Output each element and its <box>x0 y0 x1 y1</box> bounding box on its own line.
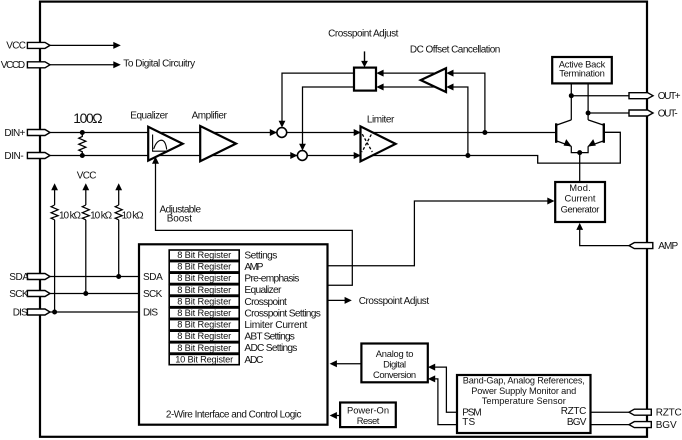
wire adjustable boost from equalizer register <box>152 157 352 286</box>
wire ABT to OUT- collector branch <box>587 83 589 120</box>
svg-text:8 Bit Register: 8 Bit Register <box>177 296 231 306</box>
mod current generator box <box>555 182 605 222</box>
svg-text:10 kΩ: 10 kΩ <box>122 210 145 221</box>
wire OUT+ <box>571 95 630 97</box>
svg-text:VCCD: VCCD <box>1 60 25 71</box>
op-amp U3 DC offset cancellation <box>421 68 446 92</box>
wire DC offset out 2 into crosspoint box <box>376 84 436 91</box>
label To Digital Circuitry <box>123 59 195 70</box>
power-on reset box <box>340 403 396 428</box>
svg-text:Equalizer: Equalizer <box>244 285 282 296</box>
label 2-wire box SDA <box>143 272 163 283</box>
svg-text:AMP: AMP <box>244 262 263 273</box>
svg-text:Boost: Boost <box>167 213 193 224</box>
label mod current generator text <box>561 182 600 215</box>
wire DIN+ net <box>50 132 556 134</box>
svg-text:Mod.: Mod. <box>569 182 590 193</box>
wire DC offset in 1 from DIN+ node <box>446 70 485 133</box>
svg-text:TS: TS <box>462 417 475 428</box>
pin label VCCD <box>1 60 25 71</box>
wire emitter tail <box>571 146 588 182</box>
register 8-bit Settings <box>169 250 239 260</box>
equalizer U1 <box>148 127 183 161</box>
register 8-bit ADC Settings <box>169 343 239 353</box>
wire ABT to OUT+ collector branch <box>570 83 572 120</box>
register 10-bit ADC <box>169 354 239 364</box>
svg-text:8 Bit Register: 8 Bit Register <box>177 320 231 330</box>
register 8-bit Equalizer <box>169 285 239 295</box>
pin label DIS <box>13 308 28 319</box>
pin DIS <box>27 309 50 315</box>
wire TS to ADC <box>428 375 457 424</box>
transistor Q1 <box>556 120 571 146</box>
svg-text:SDA: SDA <box>143 272 163 283</box>
pin RZTC <box>629 409 651 415</box>
svg-text:Power Supply Monitor and: Power Supply Monitor and <box>471 386 576 396</box>
wire crosspoint output 1 to switch S1 <box>279 73 354 128</box>
svg-text:8 Bit Register: 8 Bit Register <box>177 308 231 318</box>
label Limiter <box>367 115 395 126</box>
svg-text:ADC Settings: ADC Settings <box>244 343 297 354</box>
resistor R term 100 ohm <box>79 133 86 156</box>
svg-text:OUT+: OUT+ <box>658 91 681 102</box>
pin label RZTC <box>656 408 682 419</box>
register texts <box>175 250 233 364</box>
wire VCC internal <box>50 42 121 49</box>
svg-text:SDA: SDA <box>9 272 29 283</box>
label VCC pullup rail <box>77 170 97 181</box>
pin label VCC <box>6 41 26 52</box>
svg-text:Equalizer: Equalizer <box>130 110 168 121</box>
svg-text:RZTC: RZTC <box>561 406 587 417</box>
svg-text:OUT-: OUT- <box>658 108 678 119</box>
register 8-bit ABT Settings <box>169 331 239 341</box>
wire DC offset out 1 into crosspoint box <box>376 70 436 77</box>
node OUT- junction <box>586 111 591 116</box>
wire SCK <box>50 293 140 295</box>
label ADC box text <box>373 348 416 380</box>
svg-text:Conversion: Conversion <box>373 369 416 380</box>
svg-text:Reset: Reset <box>357 415 380 426</box>
register 8-bit Crosspoint <box>169 296 239 306</box>
node SCK pullup junction <box>83 291 88 296</box>
label RZTC internal <box>561 406 587 417</box>
svg-text:AMP: AMP <box>658 241 678 252</box>
label PSM <box>462 407 482 418</box>
svg-text:Crosspoint Settings: Crosspoint Settings <box>244 308 321 319</box>
label Crosspoint Adjust top <box>328 29 399 40</box>
svg-text:SCK: SCK <box>9 289 29 300</box>
pin label SCK <box>9 289 29 300</box>
node DIN+ / resistor junction <box>80 130 85 135</box>
value label 10 kOhm R2 <box>59 210 82 221</box>
label Equalizer <box>130 110 168 121</box>
amplifier U2 <box>200 126 236 161</box>
svg-text:Amplifier: Amplifier <box>192 111 228 122</box>
register 8-bit AMP <box>169 262 239 272</box>
svg-text:Power-On: Power-On <box>347 404 389 415</box>
svg-text:Crosspoint Adjust: Crosspoint Adjust <box>328 29 399 40</box>
svg-text:RZTC: RZTC <box>656 408 682 419</box>
register 8-bit Pre-emphasis <box>169 273 239 283</box>
pin SDA <box>27 274 50 280</box>
pin VCC <box>27 42 50 48</box>
crosspoint adjust box <box>354 68 376 91</box>
wire pullup SDA 10k to VCC <box>115 183 122 276</box>
node SDA pullup junction <box>116 274 121 279</box>
svg-text:ABT Settings: ABT Settings <box>244 332 295 343</box>
svg-text:Pre-emphasis: Pre-emphasis <box>244 274 299 285</box>
pin VCCD <box>27 62 50 68</box>
svg-text:DIN+: DIN+ <box>4 128 25 139</box>
value label 100 ohm <box>73 111 102 126</box>
svg-text:10 kΩ: 10 kΩ <box>90 210 113 221</box>
node DIN+ feedback junction <box>482 130 487 135</box>
wire VCCD to digital circuitry <box>50 61 121 68</box>
wire SDA <box>50 276 140 278</box>
band-gap analog references box <box>457 375 591 433</box>
svg-text:2-Wire Interface and Control L: 2-Wire Interface and Control Logic <box>166 410 302 421</box>
value label 10 kOhm R3 <box>90 210 113 221</box>
pin OUT+ <box>629 93 653 99</box>
node DIN- / resistor junction <box>80 153 85 158</box>
label ABT box text <box>559 59 606 79</box>
pin label SDA <box>9 272 29 283</box>
pin label BGV <box>656 420 677 431</box>
label 2-wire box SCK <box>143 289 163 300</box>
svg-text:Limiter: Limiter <box>367 115 395 126</box>
pin OUT- <box>629 110 653 116</box>
label Amplifier <box>192 111 228 122</box>
svg-text:8 Bit Register: 8 Bit Register <box>177 250 231 260</box>
node DIS pullup junction <box>52 310 57 315</box>
active back termination box <box>552 57 612 83</box>
svg-text:8 Bit Register: 8 Bit Register <box>177 331 231 341</box>
register 8-bit Crosspoint Settings <box>169 308 239 318</box>
node DIN- feedback junction <box>465 153 470 158</box>
node emitter junction <box>577 150 582 155</box>
wire pullup DIS 10k to VCC <box>51 183 58 312</box>
wire BGV <box>591 424 631 426</box>
svg-text:BGV: BGV <box>656 420 677 431</box>
pin DIN+ <box>27 130 50 136</box>
svg-text:8 Bit Register: 8 Bit Register <box>177 285 231 295</box>
limiter U4 <box>354 126 396 161</box>
wire DIN- net <box>50 132 621 163</box>
wire ADC result to control logic <box>330 360 362 367</box>
wire PSM to ADC <box>428 364 457 413</box>
svg-text:Settings: Settings <box>244 250 277 261</box>
svg-text:Crosspoint Adjust: Crosspoint Adjust <box>359 296 430 307</box>
svg-text:Crosspoint: Crosspoint <box>244 297 287 308</box>
wire pullup SCK 10k to VCC <box>82 183 89 293</box>
svg-text:Limiter Current: Limiter Current <box>244 320 307 331</box>
wire AMP pin to mod current generator <box>576 223 630 246</box>
transistor Q2 <box>588 120 604 146</box>
pin label DIN- <box>4 151 23 162</box>
wire crosspoint output 2 to switch S2 <box>299 87 354 151</box>
svg-text:DIN-: DIN- <box>4 151 23 162</box>
pin BGV <box>629 422 651 428</box>
pin label DIN+ <box>4 128 25 139</box>
pin label OUT- <box>658 108 678 119</box>
register 8-bit Limiter Current <box>169 320 239 330</box>
svg-text:Digital: Digital <box>383 358 406 369</box>
pin AMP <box>629 243 653 249</box>
label BGV internal <box>567 417 587 428</box>
register row labels <box>244 250 321 365</box>
svg-text:To Digital Circuitry: To Digital Circuitry <box>123 59 195 70</box>
node OUT+ junction <box>569 93 574 98</box>
value label 10 kOhm R4 <box>122 210 145 221</box>
svg-text:BGV: BGV <box>567 417 587 428</box>
pin label AMP <box>658 241 678 252</box>
wire AMP control from register <box>329 198 555 266</box>
label TS <box>462 417 475 428</box>
label DC Offset Cancellation <box>410 45 500 56</box>
svg-text:VCC: VCC <box>77 170 97 181</box>
label 2-wire box DIS <box>143 308 158 319</box>
svg-text:Temperature Sensor: Temperature Sensor <box>482 396 566 406</box>
wire OUT- <box>588 112 630 114</box>
pin SCK <box>27 291 50 297</box>
label Crosspoint Adjust lower <box>359 296 430 307</box>
label Adjustable Boost <box>160 204 202 224</box>
svg-text:Current: Current <box>565 193 596 204</box>
wire DC offset in 2 from DIN- node <box>446 84 468 156</box>
svg-text:DIS: DIS <box>13 308 28 319</box>
svg-text:8 Bit Register: 8 Bit Register <box>177 262 231 272</box>
svg-text:Termination: Termination <box>559 67 605 78</box>
wire power-on reset to control logic <box>330 412 341 419</box>
svg-text:Analog to: Analog to <box>376 348 414 359</box>
analog to digital conversion box <box>361 344 427 383</box>
wire crosspoint adjust control dash <box>361 51 368 67</box>
svg-text:100Ω: 100Ω <box>73 111 102 126</box>
label 2-wire interface caption <box>166 410 302 421</box>
svg-text:Generator: Generator <box>561 204 600 215</box>
svg-text:Band-Gap, Analog References,: Band-Gap, Analog References, <box>463 376 585 386</box>
crosspoint switch S2 <box>290 151 307 161</box>
wire crosspoint adjust output <box>329 297 352 304</box>
crosspoint switch S1 <box>270 128 287 138</box>
pin DIN- <box>27 153 50 159</box>
pin label OUT+ <box>658 91 681 102</box>
label power-on reset text <box>347 404 389 426</box>
label band-gap box text <box>463 376 585 406</box>
svg-text:10 Bit Register: 10 Bit Register <box>175 354 233 364</box>
svg-text:ADC: ADC <box>244 355 263 366</box>
svg-text:DC Offset Cancellation: DC Offset Cancellation <box>410 45 500 56</box>
svg-text:8 Bit Register: 8 Bit Register <box>177 343 231 353</box>
svg-text:VCC: VCC <box>6 41 26 52</box>
svg-text:8 Bit Register: 8 Bit Register <box>177 273 231 283</box>
svg-text:DIS: DIS <box>143 308 158 319</box>
wire RZTC <box>591 411 631 413</box>
svg-text:SCK: SCK <box>143 289 163 300</box>
wire DIS <box>50 311 140 313</box>
svg-text:10 kΩ: 10 kΩ <box>59 210 82 221</box>
2-wire interface and control logic box <box>139 244 328 424</box>
